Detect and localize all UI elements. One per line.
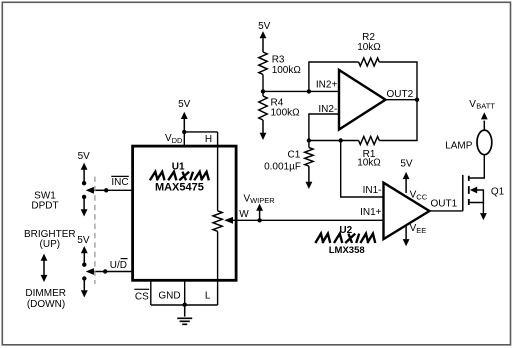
- svg-text:LMX358: LMX358: [329, 245, 365, 256]
- 5V supply label (VDD): [178, 99, 191, 110]
- contact node (SW1 lower, gnd side): [82, 276, 86, 280]
- label R3: [272, 55, 285, 66]
- label L: [205, 290, 211, 301]
- op-amp U2a: [339, 70, 386, 130]
- potentiometer element (U1): [213, 211, 222, 232]
- transistor Q1 drain: [469, 155, 485, 178]
- node wiper: [257, 218, 261, 222]
- svg-text:GND: GND: [158, 290, 180, 301]
- 5V supply label (SW1 lower): [77, 235, 90, 246]
- transistor Q1 gate: [462, 175, 464, 211]
- svg-text:OUT2: OUT2: [387, 89, 414, 100]
- 5V arrow (R3): [260, 31, 267, 52]
- svg-text:Q1: Q1: [491, 186, 505, 197]
- node GND: [183, 303, 187, 307]
- MAXIM logo (U2): [315, 234, 377, 243]
- ground arrow (C1): [306, 166, 313, 189]
- label OUT1: [431, 199, 458, 210]
- contact node (SW1 lower, 5V side): [82, 263, 86, 267]
- label W: [239, 209, 249, 220]
- label GND: [158, 290, 180, 301]
- label LMX358: [329, 245, 365, 256]
- svg-text:10kΩ: 10kΩ: [357, 158, 381, 169]
- node R3/R4: [261, 89, 265, 93]
- label U1: [172, 161, 185, 172]
- svg-text:W: W: [239, 209, 249, 220]
- svg-text:U/D: U/D: [110, 260, 127, 271]
- label R1: [363, 149, 376, 160]
- wire CS tie: [150, 280, 152, 305]
- node IN1- tap: [339, 138, 343, 142]
- svg-text:WIPER: WIPER: [250, 196, 275, 205]
- svg-text:IN2+: IN2+: [316, 79, 338, 90]
- 5V supply label (SW1 upper): [78, 151, 91, 162]
- ground: [177, 305, 192, 325]
- op-amp U2b: [384, 183, 430, 239]
- svg-text:(UP): (UP): [40, 239, 61, 250]
- label CS (overline): [134, 289, 149, 302]
- label IN2-: [318, 104, 337, 115]
- svg-text:DD: DD: [172, 136, 183, 145]
- label 10k (R1): [357, 158, 381, 169]
- 5V arrow (VDD): [181, 112, 188, 132]
- label U2: [339, 225, 352, 236]
- wire IN2- to C1 node: [309, 114, 339, 141]
- svg-text:IN1+: IN1+: [360, 207, 382, 218]
- 5V arrow (SW1 lower): [81, 246, 88, 265]
- svg-text:CC: CC: [416, 193, 427, 202]
- label LAMP: [445, 140, 473, 151]
- svg-text:INC: INC: [111, 177, 128, 188]
- wire L terminal: [217, 231, 219, 305]
- wire gnd rail under U1: [151, 304, 218, 306]
- label IN2+: [316, 79, 338, 90]
- label OUT2: [387, 89, 414, 100]
- wire VDD pin: [183, 132, 185, 146]
- label VBATT: [469, 99, 495, 111]
- svg-text:OUT1: OUT1: [431, 199, 458, 210]
- switch pole SW1b: [86, 268, 106, 275]
- label 0.001uF: [264, 161, 301, 172]
- label (UP): [40, 239, 61, 250]
- svg-text:DIMMER: DIMMER: [25, 288, 66, 299]
- mechanical link (dashed): [94, 177, 96, 285]
- svg-text:CS: CS: [135, 292, 149, 303]
- node OUT2: [415, 98, 419, 102]
- label 10k (R2): [357, 42, 381, 53]
- node IN2+: [307, 89, 311, 93]
- label R4: [271, 98, 284, 109]
- label BRIGHTER: [24, 229, 76, 240]
- wire H terminal: [217, 132, 219, 211]
- label IN1+: [360, 207, 382, 218]
- resistor R4: [259, 96, 267, 120]
- label R2: [362, 32, 375, 43]
- label 100k (R4): [271, 108, 301, 119]
- svg-text:DPDT: DPDT: [31, 201, 58, 212]
- node VDD: [182, 130, 186, 134]
- label 100k (R3): [272, 65, 302, 76]
- svg-text:100kΩ: 100kΩ: [271, 108, 301, 119]
- VWIPER arrow: [256, 204, 263, 221]
- svg-text:5V: 5V: [400, 159, 413, 170]
- label DIMMER: [25, 288, 66, 299]
- transistor Q1 body arrow: [470, 187, 484, 203]
- transistor Q1 source: [469, 203, 484, 214]
- svg-text:BATT: BATT: [476, 102, 495, 111]
- wiper arrow: [224, 217, 383, 224]
- label H: [205, 134, 212, 145]
- VEE arrow: [403, 225, 410, 247]
- label DPDT: [31, 201, 58, 212]
- svg-text:EE: EE: [416, 226, 426, 235]
- node C1: [307, 138, 311, 142]
- svg-text:V: V: [469, 99, 476, 110]
- MAXIM logo (U1): [150, 172, 211, 181]
- label Q1: [491, 186, 505, 197]
- ground arrow (SW1 upper): [81, 197, 88, 217]
- label C1: [288, 149, 301, 160]
- wire IN1-: [341, 141, 384, 198]
- contact node (SW1 upper, 5V side): [82, 181, 86, 185]
- label U/D (overline on D): [110, 259, 128, 272]
- svg-text:5V: 5V: [258, 21, 271, 32]
- svg-text:C1: C1: [288, 149, 301, 160]
- svg-text:H: H: [205, 134, 212, 145]
- svg-text:L: L: [205, 290, 211, 301]
- wire hysteresis loop R2: [309, 62, 417, 100]
- svg-text:(DOWN): (DOWN): [27, 299, 65, 310]
- digital pot U1 MAX5475 box: [133, 146, 237, 280]
- svg-text:0.001µF: 0.001µF: [264, 161, 301, 172]
- svg-text:100kΩ: 100kΩ: [272, 65, 302, 76]
- up-down motion arrow: [41, 254, 48, 283]
- wire RC feedback rail: [309, 100, 417, 141]
- ground arrow (R4): [260, 120, 267, 140]
- wire divider to IN2+: [263, 90, 339, 92]
- svg-text:5V: 5V: [77, 235, 90, 246]
- resistor R2: [359, 58, 380, 66]
- VBATT arrow: [481, 112, 488, 130]
- wire R3 to R4: [262, 75, 264, 97]
- label IN1-: [363, 185, 382, 196]
- svg-text:MAX5475: MAX5475: [155, 182, 204, 194]
- svg-text:5V: 5V: [178, 99, 191, 110]
- ground arrow (SW1 lower): [81, 279, 88, 298]
- label VDD: [165, 133, 183, 145]
- VCC arrow: [403, 172, 410, 193]
- resistor R3: [259, 52, 267, 75]
- svg-text:10kΩ: 10kΩ: [357, 42, 381, 53]
- ground arrow (Q1 source): [480, 213, 487, 220]
- capacitor C1: [305, 141, 313, 167]
- svg-text:LAMP: LAMP: [445, 140, 473, 151]
- 5V supply label (VCC): [400, 159, 413, 170]
- wire U/D to U1: [105, 271, 131, 273]
- resistor R1: [359, 137, 380, 145]
- transistor Q1 channel: [468, 176, 470, 205]
- wire OUT1 to gate: [429, 210, 462, 212]
- label (DOWN): [27, 299, 65, 310]
- svg-text:IN1-: IN1-: [363, 185, 382, 196]
- wire VDD to H pin: [184, 131, 217, 133]
- svg-text:5V: 5V: [78, 151, 91, 162]
- label SW1: [34, 191, 56, 202]
- svg-text:U2: U2: [339, 225, 352, 236]
- wire OUT2: [386, 99, 418, 101]
- wire INC to U1: [106, 189, 131, 191]
- contact node (SW1 upper, gnd side): [82, 195, 86, 199]
- pole node SW1b: [103, 269, 107, 273]
- switch pole SW1a: [86, 187, 107, 194]
- wire GND pin: [184, 280, 186, 305]
- 5V supply label (R3): [258, 21, 271, 32]
- pole node SW1a: [104, 188, 108, 192]
- label VEE: [410, 223, 427, 235]
- 5V arrow (SW1 upper): [81, 163, 88, 184]
- lamp: [477, 130, 492, 155]
- label INC (overline): [111, 176, 129, 188]
- label MAX5475: [155, 182, 204, 194]
- label VCC: [410, 190, 428, 202]
- label VWIPER: [244, 193, 276, 205]
